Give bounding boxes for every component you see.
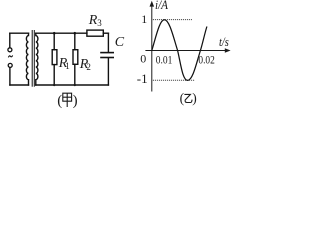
AC source terminal top	[8, 48, 12, 52]
svg-text:): )	[192, 91, 197, 106]
resistor R3	[87, 30, 103, 36]
x axis arrowhead	[225, 48, 231, 53]
y axis arrowhead	[150, 1, 155, 7]
dashed line at -1	[153, 79, 195, 81]
node junction top R1	[53, 32, 56, 35]
svg-text:(: (	[180, 91, 185, 106]
svg-text:0.01: 0.01	[156, 55, 173, 67]
transformer secondary coil L2	[36, 33, 38, 85]
svg-text:i/A: i/A	[155, 0, 168, 12]
wire corner down to capacitor	[107, 33, 109, 52]
wire secondary bottom	[36, 84, 109, 86]
svg-text:-1: -1	[137, 71, 148, 86]
wire R1 branch lower	[53, 65, 55, 85]
node junction bottom R1	[53, 84, 55, 86]
resistor R1	[52, 50, 57, 65]
wire left vertical bottom (bottom wire to terminal)	[9, 68, 11, 85]
transformer core line 2	[33, 31, 35, 87]
AC tilde symbol	[9, 56, 13, 57]
x axis	[145, 50, 228, 52]
wire primary bottom	[10, 84, 29, 86]
resistor R2	[73, 50, 78, 65]
svg-text:2: 2	[86, 62, 91, 72]
wire R3 to corner	[103, 32, 108, 34]
svg-text:1: 1	[65, 61, 70, 71]
wire R2 branch lower	[74, 64, 76, 85]
node junction top R2	[74, 32, 77, 35]
sine current curve	[152, 20, 207, 81]
svg-text:R: R	[88, 13, 98, 28]
svg-text:0.02: 0.02	[198, 55, 215, 67]
wire R1 branch upper	[53, 33, 55, 50]
svg-text:3: 3	[97, 18, 102, 28]
yi glyph	[184, 94, 192, 102]
dotted line at +1	[153, 19, 192, 21]
wire capacitor to bottom	[107, 58, 109, 85]
capacitor C bottom plate	[101, 57, 113, 59]
wire left vertical top (terminal to top wire)	[9, 33, 11, 47]
svg-text:1: 1	[141, 12, 147, 26]
wire primary top	[10, 32, 29, 34]
wire R2 branch upper	[74, 33, 76, 50]
capacitor C top plate	[101, 52, 113, 54]
wire secondary top	[36, 32, 87, 34]
svg-text:t/s: t/s	[219, 35, 229, 49]
svg-text:): )	[73, 93, 78, 109]
svg-text:0: 0	[140, 52, 146, 66]
svg-text:C: C	[115, 35, 125, 50]
y axis	[151, 4, 153, 92]
transformer primary coil L1	[26, 33, 28, 85]
transformer core line 1	[31, 31, 33, 87]
AC source terminal bottom	[8, 63, 12, 67]
svg-text:(: (	[57, 93, 62, 109]
node junction bottom R2	[74, 84, 76, 86]
